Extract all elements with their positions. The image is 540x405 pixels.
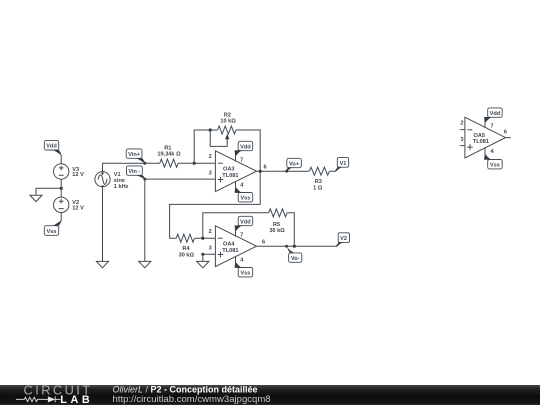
- OA3 inverting input mark: [218, 162, 223, 164]
- voltage source V1 (sine): [95, 172, 129, 191]
- wire Vin- down to ground: [144, 179, 146, 261]
- wire output node down and left to R4: [170, 171, 261, 238]
- net label Vss (OA5): [484, 148, 502, 169]
- svg-text:3: 3: [209, 171, 212, 177]
- wire R2 right to output node: [236, 130, 260, 171]
- OA4 output wire: [257, 245, 337, 247]
- wire V3 to V2: [60, 179, 62, 197]
- wire feedback up to R2: [194, 130, 217, 163]
- wire R5 right down to OA4 output: [287, 213, 294, 246]
- output junction node: [259, 170, 262, 173]
- net label Vss (OA3): [235, 181, 253, 202]
- resistor R4: [176, 234, 194, 258]
- OA3 output wire: [257, 170, 310, 172]
- svg-text:19,34k Ω: 19,34k Ω: [157, 152, 181, 158]
- svg-text:Vdd: Vdd: [490, 111, 501, 117]
- svg-text:OlivierL / P2 - Conception dét: OlivierL / P2 - Conception détaillée: [113, 384, 258, 394]
- svg-text:R4: R4: [182, 246, 190, 252]
- wire R4 to OA4 pin2: [195, 237, 216, 239]
- svg-text:Vo+: Vo+: [289, 161, 300, 167]
- svg-text:30 kΩ: 30 kΩ: [269, 228, 285, 234]
- OA5 pin stubs: [460, 130, 511, 146]
- junction Vin+ tap: [143, 162, 146, 165]
- logo diode symbol: [48, 396, 55, 402]
- R2 wiper (pot): [210, 130, 227, 146]
- svg-text:Vin -: Vin -: [128, 169, 140, 175]
- OA4 non-inverting input mark: [218, 252, 224, 258]
- svg-text:OA3: OA3: [223, 167, 235, 173]
- net label Vin-: [127, 166, 146, 179]
- wire V1 bottom to ground: [102, 187, 104, 262]
- CircuitLab logo squiggle (resistor + diode): [16, 396, 61, 402]
- net label Vss (OA4): [235, 256, 253, 277]
- op-amp OA5: [460, 117, 511, 158]
- svg-text:12 V: 12 V: [72, 172, 84, 178]
- svg-text:7: 7: [490, 124, 493, 130]
- svg-text:Vss: Vss: [490, 163, 500, 169]
- svg-text:1 kHz: 1 kHz: [114, 184, 129, 190]
- svg-text:30 kΩ: 30 kΩ: [179, 252, 195, 258]
- svg-text:Vdd: Vdd: [240, 219, 251, 225]
- net label Vss (left supply): [44, 220, 61, 235]
- svg-text:R3: R3: [315, 179, 322, 185]
- svg-text:R1: R1: [164, 146, 171, 152]
- svg-text:3: 3: [209, 246, 212, 252]
- wire R1 right to op-amp pin 2: [178, 162, 215, 164]
- wire pin2 node up to R5: [203, 213, 269, 238]
- wire Vin- to op-amp pin 3: [145, 178, 216, 180]
- OA5 non-inverting input mark: [467, 144, 473, 150]
- svg-text:Vin+: Vin+: [128, 152, 141, 158]
- svg-text:6: 6: [504, 129, 507, 135]
- svg-text:Vss: Vss: [47, 229, 57, 235]
- wire V2 to Vss: [60, 213, 62, 222]
- svg-text:3: 3: [460, 137, 463, 143]
- svg-text:TL081: TL081: [473, 139, 489, 145]
- op-amp OA4: [209, 226, 265, 267]
- OA5 inverting input mark: [467, 129, 472, 131]
- net label Vdd (OA3): [235, 141, 253, 161]
- wire V1 top to R1 and pin 2: [103, 163, 160, 171]
- net label Vo+: [286, 158, 302, 172]
- junction Vin- tap: [143, 178, 146, 181]
- svg-text:OA5: OA5: [474, 133, 486, 139]
- svg-text:http://circuitlab.com/cwmw3ajp: http://circuitlab.com/cwmw3ajpgcqm8: [113, 394, 271, 405]
- svg-text:TL081: TL081: [222, 173, 238, 179]
- net label V2 (output): [336, 233, 350, 247]
- svg-text:Vdd: Vdd: [240, 144, 251, 150]
- svg-text:7: 7: [240, 232, 243, 238]
- svg-text:TL081: TL081: [222, 248, 238, 254]
- wire OA4 pin3 to ground: [203, 254, 216, 261]
- svg-text:2: 2: [209, 154, 212, 160]
- junction R5 at output: [293, 245, 296, 248]
- wire R3 to V1 label: [330, 170, 336, 172]
- svg-text:7: 7: [240, 157, 243, 163]
- svg-text:Vss: Vss: [240, 271, 250, 277]
- V2 polarity marks: [59, 199, 64, 209]
- svg-text:Vo-: Vo-: [291, 256, 300, 262]
- ground (V1): [96, 261, 108, 267]
- junction node between V3 and V2: [60, 187, 63, 190]
- svg-text:Vdd: Vdd: [46, 144, 57, 150]
- voltage source V2: [54, 197, 85, 212]
- op-amp OA3: [209, 151, 267, 192]
- svg-text:6: 6: [263, 164, 266, 170]
- svg-text:2: 2: [460, 120, 463, 126]
- net label Vo-: [287, 246, 302, 262]
- OA4 inverting input mark: [218, 237, 223, 239]
- wire to left ground: [36, 188, 61, 195]
- resistor R1: [157, 146, 181, 168]
- svg-text:6: 6: [262, 240, 265, 246]
- svg-text:V1: V1: [340, 161, 347, 167]
- svg-text:12 V: 12 V: [72, 206, 84, 212]
- resistor R2 potentiometer: [218, 113, 237, 134]
- junction Vo- tap: [285, 245, 288, 248]
- ground (Vin- wire): [139, 261, 151, 267]
- junction Vo+ tap: [285, 170, 288, 173]
- resistor R3: [309, 167, 329, 191]
- net label Vin+: [126, 149, 145, 164]
- OA3 non-inverting input mark: [218, 177, 224, 183]
- svg-text:V2: V2: [340, 236, 347, 242]
- ground (left supply): [30, 195, 42, 201]
- net label Vdd (OA4): [235, 216, 253, 236]
- feedback junction on pin2 wire: [193, 162, 196, 165]
- svg-text:2: 2: [209, 229, 212, 235]
- svg-text:sine: sine: [114, 178, 125, 184]
- net label Vdd (left supply): [44, 140, 61, 155]
- resistor R5: [269, 209, 287, 234]
- svg-text:Vss: Vss: [240, 196, 250, 202]
- ground (OA4 pin3): [197, 261, 209, 267]
- svg-text:LAB: LAB: [60, 394, 93, 405]
- svg-text:10 kΩ: 10 kΩ: [220, 119, 236, 125]
- junction R2 left terminal: [209, 128, 212, 131]
- svg-text:1 Ω: 1 Ω: [313, 185, 323, 191]
- junction OA4 pin2 node: [201, 237, 204, 240]
- V3 polarity marks: [59, 166, 64, 176]
- svg-text:OA4: OA4: [223, 242, 235, 248]
- net label V1 (output): [335, 158, 349, 172]
- wire Vdd to V3: [60, 155, 62, 164]
- junction pin3 node: [201, 253, 204, 256]
- voltage source V3: [54, 164, 85, 179]
- net label Vdd (OA5): [484, 108, 502, 128]
